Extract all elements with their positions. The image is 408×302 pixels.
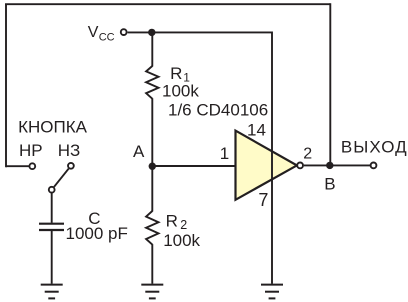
svg-text:14: 14: [247, 120, 266, 139]
wire (node A to inverter input pin 1): [152, 165, 236, 167]
ground (under pin 7): [261, 285, 283, 299]
wire (left feedback to НР contact): [6, 165, 29, 167]
resistor R2 zigzag: [146, 211, 158, 245]
svg-text:КНОПКА: КНОПКА: [18, 118, 88, 137]
ground (under R2): [141, 285, 163, 299]
switch pole terminal circle: [49, 187, 55, 193]
label Vcc: [88, 24, 115, 43]
junction (Vcc rail to R1): [148, 29, 155, 36]
svg-text:R: R: [170, 64, 182, 83]
svg-text:V: V: [88, 24, 99, 41]
node B junction dot: [326, 162, 333, 169]
svg-text:A: A: [133, 142, 145, 161]
ground (under capacitor C): [41, 285, 63, 299]
svg-text:ВЫХОД: ВЫХОД: [341, 138, 408, 157]
svg-text:НР: НР: [19, 141, 43, 160]
label R2: [166, 212, 188, 233]
wire (R2 bottom to ground): [151, 244, 153, 284]
svg-text:В: В: [324, 174, 335, 193]
wire (pin 14 supply drop / pin 7 ground drop, vertical through inverter): [271, 32, 273, 284]
wire (feedback, right side: from top rail down to node B): [329, 3, 331, 165]
svg-text:100k: 100k: [162, 82, 199, 101]
wire (output bubble to output terminal): [304, 164, 371, 166]
svg-text:2: 2: [303, 146, 312, 163]
wire (junction down to R1 top): [151, 32, 153, 67]
wire (feedback, top rail from left side to right side): [5, 3, 330, 5]
svg-text:R: R: [166, 212, 178, 231]
wire (Vcc rail from Vcc terminal to pin-14 drop): [128, 31, 272, 33]
svg-text:CC: CC: [99, 31, 115, 43]
op-amp U1 (1/6 CD40106 Schmitt-trigger inverter) triangle body: [236, 131, 297, 200]
wire (capacitor C to ground): [51, 231, 53, 284]
wire (node A down to R2 top): [151, 165, 153, 211]
wire (switch pole down to capacitor C): [51, 193, 53, 223]
wire (feedback, left side: from top rail down to switch contact НР): [5, 4, 7, 167]
output terminal circle: [371, 163, 377, 169]
node A junction dot: [149, 163, 156, 170]
wire (R1 bottom to node A): [151, 98, 153, 167]
inverter output bubble: [297, 163, 303, 169]
switch lever (pole to НЗ contact): [54, 169, 69, 187]
capacitor C plates: [39, 224, 64, 230]
svg-text:1: 1: [220, 144, 229, 163]
switch contact НЗ terminal circle: [68, 163, 74, 169]
Vcc terminal circle: [121, 29, 127, 35]
svg-text:1000 pF: 1000 pF: [66, 224, 128, 243]
resistor R1 zigzag: [146, 66, 158, 99]
switch contact НР terminal circle: [29, 163, 35, 169]
svg-text:1/6 CD40106: 1/6 CD40106: [168, 101, 268, 120]
svg-text:100k: 100k: [163, 231, 200, 250]
svg-text:7: 7: [258, 190, 268, 210]
label R1: [170, 64, 190, 85]
svg-text:НЗ: НЗ: [58, 141, 81, 160]
